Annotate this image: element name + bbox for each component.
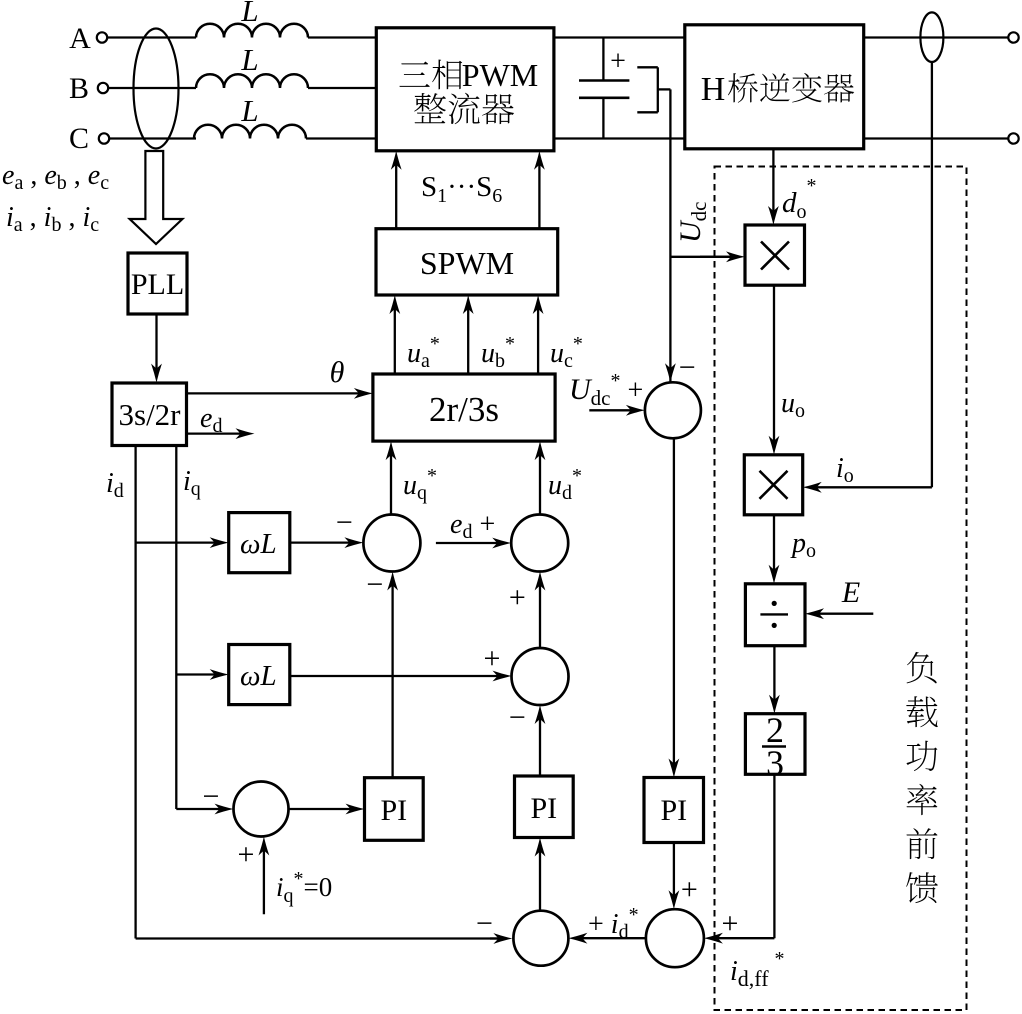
label + i_d* bbox=[588, 904, 639, 943]
wire theta to 2r/3s bbox=[187, 388, 373, 399]
svg-text:ed +: ed + bbox=[450, 509, 495, 543]
wire e_d into sum2 bbox=[436, 538, 511, 549]
block: three-phase PWM rectifier (三相PWM整流器) U1 bbox=[376, 28, 554, 151]
svg-text:PI: PI bbox=[380, 794, 407, 827]
svg-text:PI: PI bbox=[660, 794, 687, 827]
label minus (i_d into sum5) bbox=[476, 907, 493, 940]
label Udc (vertical) bbox=[674, 202, 711, 244]
svg-text:+: + bbox=[681, 873, 698, 906]
label minus (omegaL1 into sum1) bbox=[336, 506, 353, 539]
output terminal top bbox=[1008, 32, 1018, 42]
wire sum5 to PI2 bbox=[535, 838, 546, 911]
label i_q*=0 bbox=[276, 868, 332, 907]
node C (phase C input terminal) bbox=[69, 122, 109, 155]
label plus (feedforward into sum6) bbox=[722, 907, 739, 940]
label u_o bbox=[781, 388, 805, 422]
wire PI3 to sum6 bbox=[669, 843, 680, 910]
multiplier block X1 bbox=[745, 225, 805, 285]
label minus (PI1 into sum1) bbox=[366, 568, 383, 601]
node A (phase A input terminal) bbox=[69, 22, 107, 55]
wire sum1 to 2r/3s (u_q*) bbox=[386, 441, 397, 514]
svg-text:−: − bbox=[202, 780, 219, 813]
wire PLL to 3s/2r bbox=[151, 314, 162, 383]
wire Udc branch to multiplier1 bbox=[670, 251, 745, 262]
wire i_q to omegaL2 bbox=[176, 669, 228, 680]
label e_a, e_b, e_c bbox=[2, 160, 109, 194]
svg-text:θ: θ bbox=[330, 356, 345, 389]
wire SPWM to rectifier (right gate signal) bbox=[534, 151, 545, 229]
wire sum4 to PI1 bbox=[289, 804, 365, 815]
voltage sense bracket (Udc measurement) bbox=[637, 67, 670, 112]
svg-text:−: − bbox=[366, 568, 383, 601]
wire multiplier1 to multiplier2 (u_o) bbox=[769, 285, 780, 455]
label plus (PI3 into sum6) bbox=[681, 873, 698, 906]
wire sum6 to sum5 (i_d*) bbox=[568, 933, 646, 944]
wire Udc* setpoint into sum7 bbox=[589, 405, 645, 416]
block PI1 (q-axis current regulator) bbox=[365, 778, 424, 841]
svg-text:PI: PI bbox=[530, 792, 557, 825]
label minus (PI2 into sum3) bbox=[509, 701, 526, 734]
inductor L phase B bbox=[196, 74, 308, 88]
wire u_b* to SPWM bbox=[463, 295, 474, 374]
block 2/3 gain bbox=[745, 710, 805, 783]
label u_c* bbox=[550, 333, 583, 372]
label u_b* bbox=[481, 333, 515, 372]
block omega-L (lower) bbox=[229, 645, 290, 705]
label + (capacitor polarity) bbox=[610, 46, 626, 77]
svg-text:E: E bbox=[841, 576, 860, 609]
block PLL bbox=[128, 253, 187, 314]
wire d_o* from H-bridge to multiplier1 bbox=[768, 149, 779, 225]
multiplier block X2 bbox=[744, 455, 802, 515]
wire i_o from output sensor to multiplier2 bbox=[803, 62, 932, 493]
label u_d* bbox=[548, 465, 582, 504]
block PI2 (d-axis current regulator) bbox=[515, 776, 574, 838]
block PI3 (voltage regulator) bbox=[644, 778, 704, 843]
wire E into divider bbox=[805, 608, 873, 619]
svg-text:L: L bbox=[240, 0, 258, 28]
capacitor C (DC link) bbox=[579, 38, 629, 139]
svg-text:ωL: ωL bbox=[240, 660, 277, 692]
wire omegaL1 to sum1 bbox=[290, 537, 364, 548]
svg-text:+: + bbox=[509, 581, 526, 614]
summing junction sum2 (u_d*) bbox=[511, 515, 568, 572]
summing junction sum4 (i_q error) bbox=[234, 782, 289, 837]
wire divider to 2/3 block bbox=[769, 646, 780, 714]
svg-text:+: + bbox=[483, 642, 500, 675]
svg-text:−: − bbox=[476, 907, 493, 940]
wire feedforward into sum6 bbox=[704, 774, 775, 943]
wire i_d to omegaL1 bbox=[136, 537, 229, 548]
wire output bottom bbox=[864, 137, 1010, 139]
svg-text:+: + bbox=[722, 907, 739, 940]
label L (phase B) bbox=[240, 42, 258, 77]
wire omegaL2 to sum3 bbox=[290, 671, 512, 682]
label i_a, i_b, i_c bbox=[6, 202, 99, 236]
svg-text:A: A bbox=[69, 22, 91, 55]
label theta bbox=[330, 356, 345, 389]
svg-text:PWM: PWM bbox=[462, 57, 538, 93]
summing junction sum1 (u_q*) bbox=[363, 515, 420, 572]
svg-text:H: H bbox=[701, 71, 726, 108]
svg-text:L: L bbox=[240, 42, 258, 77]
summing junction sum6 bbox=[646, 909, 704, 967]
svg-text:ωL: ωL bbox=[240, 528, 277, 560]
label U_dc* + bbox=[569, 370, 643, 410]
output terminal bottom bbox=[1008, 133, 1018, 143]
label d_o* bbox=[782, 175, 817, 223]
wire PI2 to sum3 bbox=[535, 705, 546, 776]
label u_q* bbox=[403, 465, 437, 504]
wire output top bbox=[864, 36, 1010, 38]
svg-text:SPWM: SPWM bbox=[420, 245, 514, 281]
wire Udc from DC link (down from sense bracket) bbox=[665, 89, 676, 382]
block SPWM bbox=[376, 229, 558, 295]
block 3s/2r transform bbox=[112, 383, 187, 446]
sensor ellipse (input voltage/current measurement) bbox=[134, 29, 179, 149]
divider block bbox=[745, 584, 805, 646]
dashed box: load power feedforward (负载功率前馈) bbox=[715, 167, 967, 1011]
svg-text:3: 3 bbox=[766, 743, 784, 783]
label L (phase C) bbox=[240, 93, 258, 128]
summing junction sum5 (i_d error) bbox=[513, 911, 568, 966]
wire i_q (from 3s/2r down) bbox=[175, 445, 177, 809]
wire multiplier2 to divider (p_o) bbox=[769, 515, 780, 584]
svg-text:3s/2r: 3s/2r bbox=[119, 397, 182, 432]
svg-text:−: − bbox=[509, 701, 526, 734]
label plus (i_q* into sum4) bbox=[238, 838, 255, 871]
wire i_d (from 3s/2r down to bottom sum) bbox=[136, 445, 500, 939]
wire phase B bbox=[108, 87, 376, 89]
summing junction sum7 (Udc error) bbox=[645, 382, 701, 438]
block omega-L (upper) bbox=[229, 513, 290, 573]
svg-text:2r/3s: 2r/3s bbox=[429, 390, 499, 429]
wire sum3 to sum2 bbox=[535, 572, 546, 649]
inductor L phase C bbox=[194, 125, 306, 139]
svg-text:C: C bbox=[69, 122, 89, 155]
label i_d bbox=[106, 468, 124, 502]
block 2r/3s transform bbox=[373, 374, 555, 441]
wire SPWM to rectifier (left gate signal) bbox=[391, 151, 402, 229]
wire i_d into sum5 (arrow) bbox=[490, 933, 512, 944]
wire DC link top rail bbox=[554, 36, 685, 38]
hollow arrow (measured signals to PLL) bbox=[130, 151, 183, 244]
wire u_a* to SPWM bbox=[389, 295, 400, 374]
wire i_q*=0 into sum4 bbox=[259, 837, 270, 915]
svg-text:−: − bbox=[679, 351, 696, 384]
label i_d,ff* bbox=[730, 948, 785, 991]
wire i_q into sum4 bbox=[176, 804, 233, 815]
label e_d (3s/2r output) bbox=[200, 403, 222, 437]
wire phase C bbox=[109, 137, 376, 139]
svg-text:+: + bbox=[610, 46, 626, 77]
wire u_c* to SPWM bbox=[533, 295, 544, 374]
label plus (sum3 to sum2) bbox=[509, 581, 526, 614]
wire DC link bottom rail bbox=[554, 137, 685, 139]
label E bbox=[841, 576, 860, 609]
label 负载功率前馈 (vertical) bbox=[906, 652, 938, 903]
wire e_d output of 3s/2r bbox=[187, 428, 255, 439]
node B (phase B input terminal) bbox=[69, 72, 108, 105]
summing junction sum3 bbox=[512, 648, 569, 705]
wire sum2 to 2r/3s (u_d*) bbox=[535, 441, 546, 514]
svg-text:−: − bbox=[336, 506, 353, 539]
inductor L phase A bbox=[196, 24, 308, 38]
label u_a* bbox=[407, 333, 440, 372]
wire phase A bbox=[107, 36, 376, 38]
svg-text:PLL: PLL bbox=[131, 268, 184, 301]
label i_o bbox=[836, 453, 854, 487]
label minus (i_q into sum4) bbox=[202, 780, 219, 813]
label i_q bbox=[183, 466, 201, 500]
wire PI1 to sum1 bbox=[387, 572, 398, 778]
block: H-bridge inverter (H桥逆变器) U2 bbox=[685, 25, 864, 149]
svg-text:L: L bbox=[240, 93, 258, 128]
label p_o bbox=[790, 528, 816, 562]
svg-text:+: + bbox=[238, 838, 255, 871]
label L (phase A) bbox=[240, 0, 258, 28]
sensor ellipse (output current measurement) bbox=[920, 12, 943, 62]
svg-text:S1···S6: S1···S6 bbox=[421, 171, 502, 207]
svg-text:B: B bbox=[69, 72, 89, 105]
label S1...S6 bbox=[421, 171, 502, 207]
label minus (Udc into sum7) bbox=[679, 351, 696, 384]
wire sum7 to PI3 bbox=[669, 438, 680, 777]
label e_d plus (into sum2) bbox=[450, 509, 495, 543]
label plus (omegaL2 into sum3) bbox=[483, 642, 500, 675]
